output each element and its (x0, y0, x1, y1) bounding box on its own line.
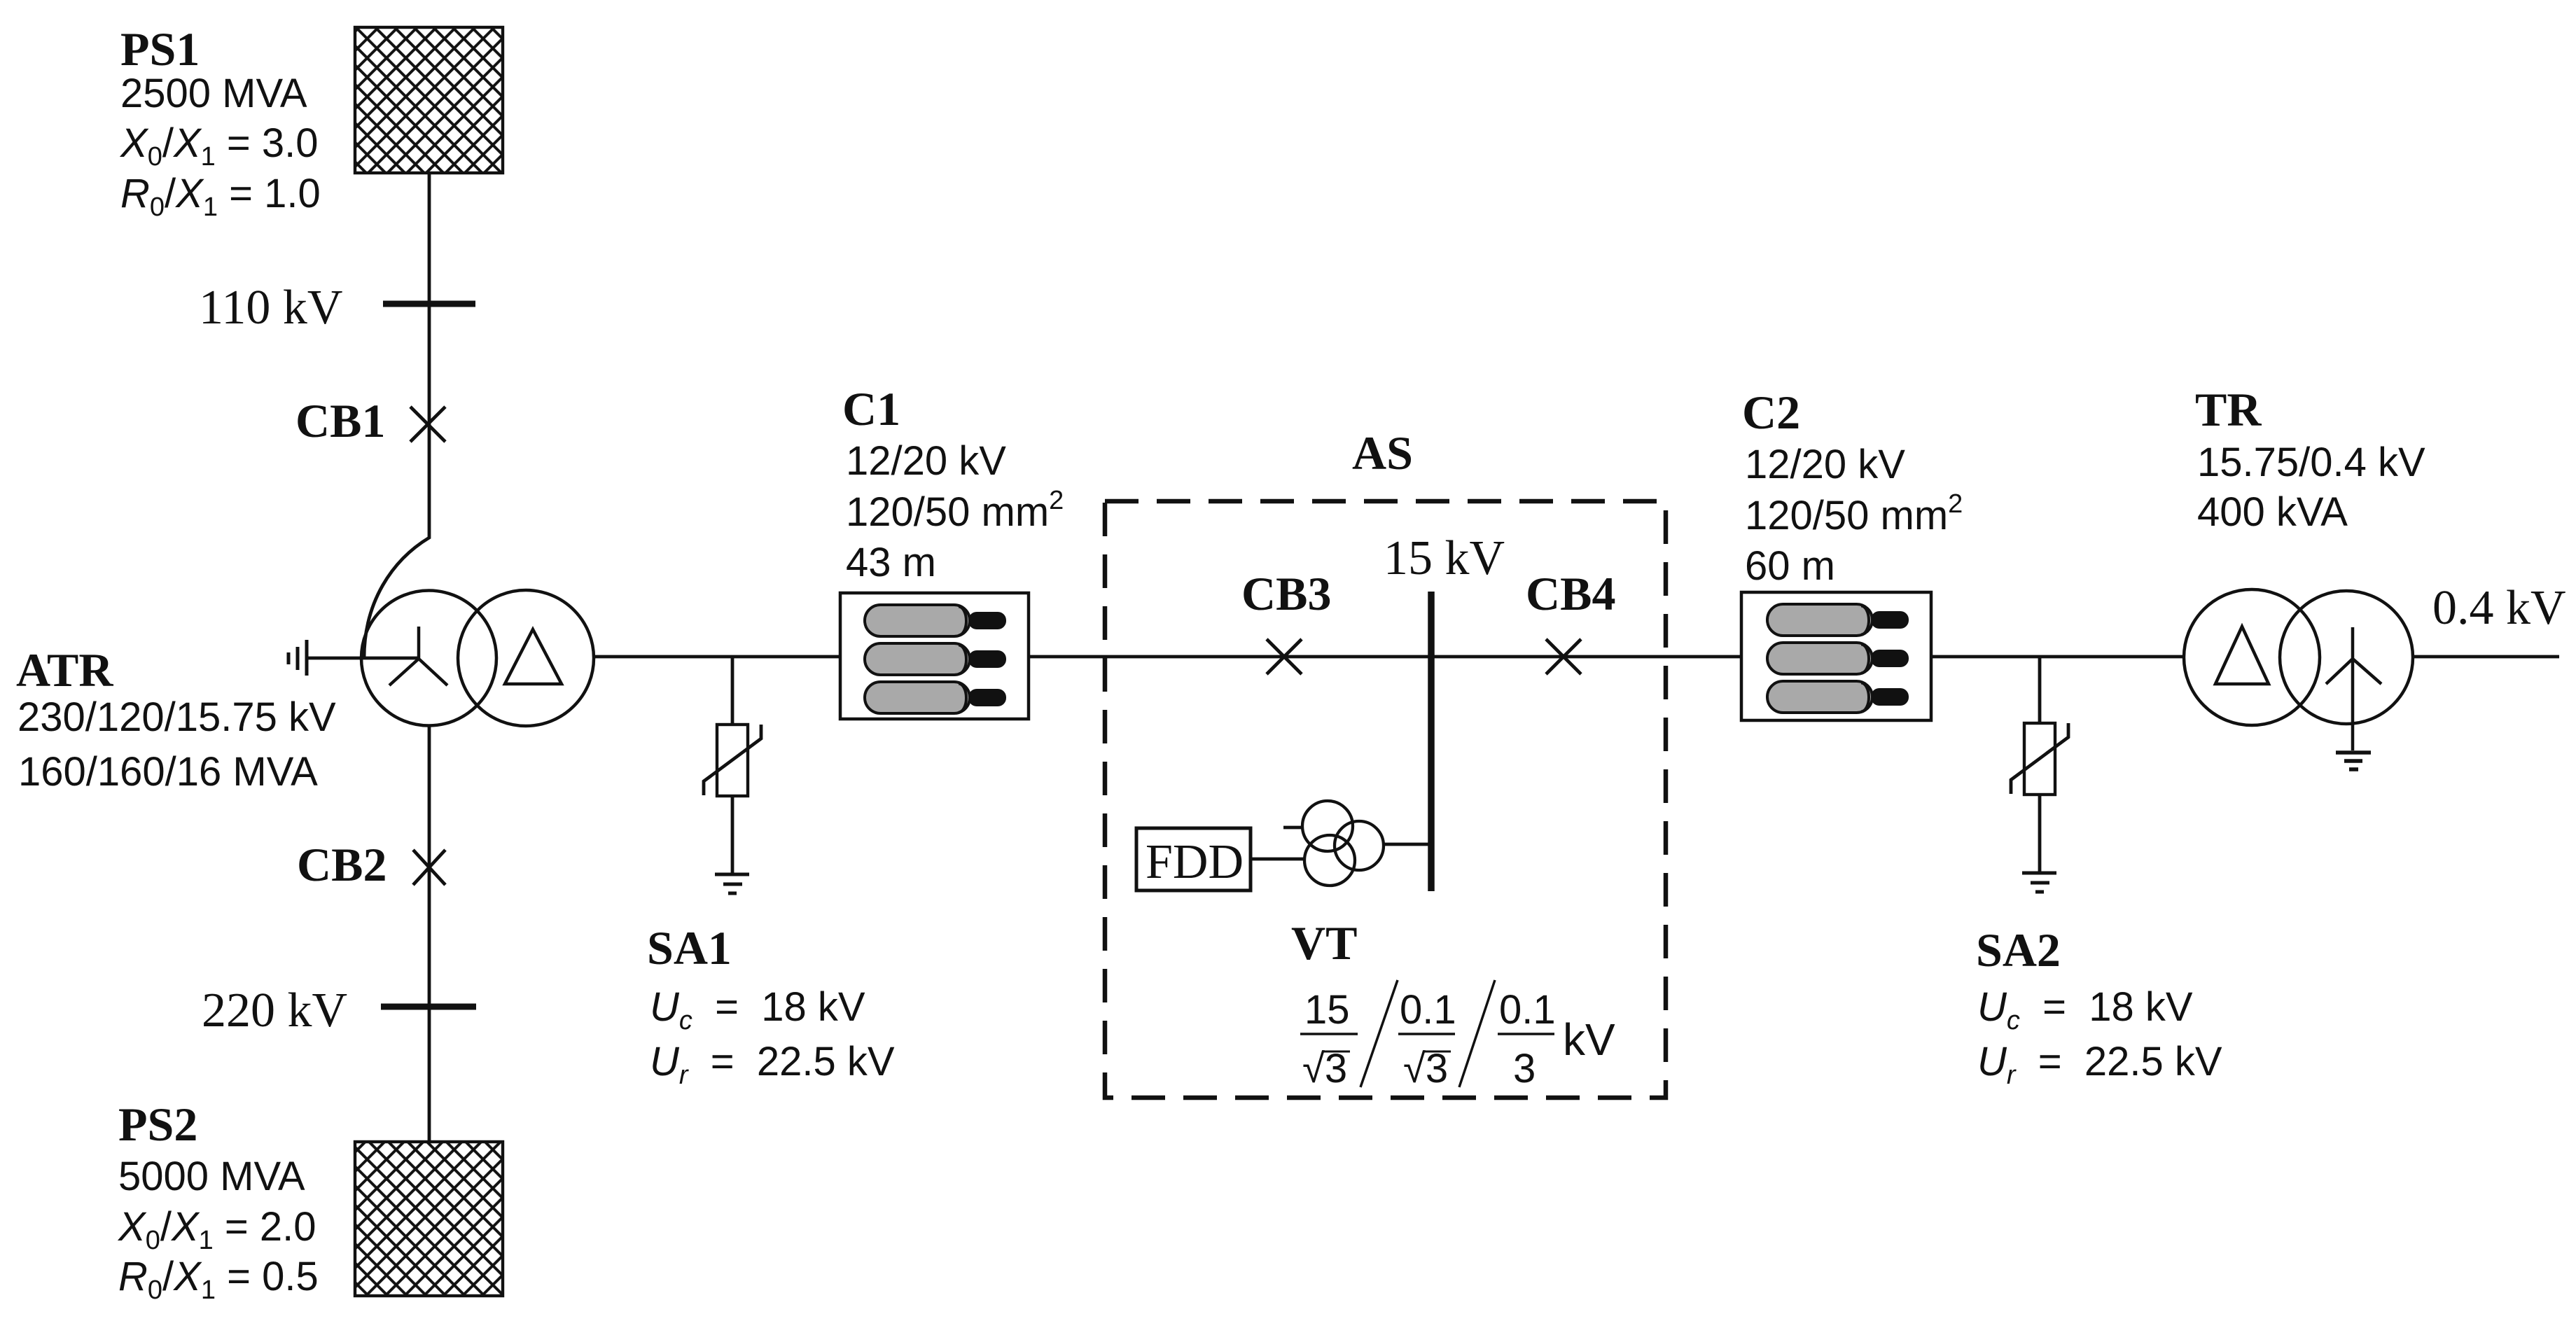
circuit breaker CB3 (1267, 639, 1302, 674)
svg-text:12/20 kV: 12/20 kV (846, 438, 1006, 484)
svg-text:3: 3 (1513, 1046, 1536, 1091)
svg-text:√3: √3 (1403, 1046, 1448, 1091)
FDD wire (1251, 858, 1304, 861)
svg-text:0.4 kV: 0.4 kV (2432, 581, 2566, 635)
C2 cable core 2 (1767, 643, 1909, 674)
busbar 220 kV (381, 1004, 476, 1010)
svg-text:SA2: SA2 (1976, 923, 2061, 977)
svg-text:12/20 kV: 12/20 kV (1745, 442, 1905, 487)
wire ATR to PS2 (428, 726, 431, 1142)
svg-text:0.1: 0.1 (1499, 987, 1556, 1033)
C1 cable core 1 (865, 605, 1006, 636)
svg-text:15: 15 (1304, 987, 1350, 1033)
svg-text:400 kVA: 400 kVA (2197, 489, 2348, 535)
C2 cable core 3 (1767, 681, 1909, 713)
svg-text:PS1: PS1 (120, 22, 200, 76)
FDD box (1136, 828, 1251, 890)
VT wire to busbar (1384, 843, 1431, 846)
svg-text:15 kV: 15 kV (1384, 531, 1505, 585)
surge arrester SA2 body (2024, 723, 2055, 795)
svg-text:43 m: 43 m (846, 540, 936, 585)
cable C2 box (1741, 592, 1931, 720)
main feeder wire C1 to C2 (1029, 655, 1741, 659)
VT ratio slash 1 (1360, 980, 1398, 1087)
C1 cable core 3 (865, 682, 1006, 713)
ATR delta winding symbol (505, 629, 562, 684)
circuit breaker CB2 (413, 850, 445, 885)
transformer TR primary circle (2184, 589, 2320, 725)
svg-text:60 m: 60 m (1745, 543, 1835, 589)
svg-text:2500 MVA: 2500 MVA (120, 71, 307, 116)
svg-text:CB1: CB1 (295, 394, 385, 447)
C2 cable core 1 (1767, 604, 1909, 636)
VT ratio bar 1 (1300, 1033, 1358, 1035)
busbar 110 kV (383, 301, 475, 307)
svg-text:220 kV: 220 kV (202, 984, 347, 1037)
svg-text:C1: C1 (842, 382, 900, 435)
SA2 varistor diagonal (2011, 723, 2068, 794)
surge arrester SA2 stub wire (2038, 657, 2042, 723)
svg-text:CB3: CB3 (1241, 567, 1331, 620)
ATR wye winding symbol (389, 627, 447, 685)
cable C1 box (840, 593, 1029, 719)
circuit breaker CB1 (410, 407, 445, 442)
artificial network AS dashed box (1105, 501, 1666, 1098)
voltage transformer VT circle right (1335, 821, 1384, 870)
svg-text:C2: C2 (1742, 386, 1800, 439)
svg-text:120/50 mm2: 120/50 mm2 (1745, 489, 1963, 538)
autotransformer ATR primary circle (361, 591, 496, 726)
power source PS2 (355, 1142, 503, 1296)
main feeder wire C2 to TR (1931, 655, 2184, 659)
VT sqrt overline 2 (1424, 1051, 1451, 1053)
surge arrester SA1 body (717, 725, 748, 796)
C1 cable core 2 (865, 643, 1006, 675)
VT ratio bar 2 (1398, 1033, 1455, 1035)
svg-text:PS2: PS2 (118, 1098, 197, 1151)
SA1 down wire (731, 796, 734, 874)
ATR neutral ground (288, 640, 307, 676)
svg-text:160/160/16 MVA: 160/160/16 MVA (18, 749, 318, 795)
voltage transformer VT circle top (1302, 801, 1353, 851)
main feeder wire ATR to C1 (594, 655, 840, 659)
SA1 varistor diagonal (704, 725, 761, 795)
svg-text:VT: VT (1291, 916, 1357, 970)
svg-text:SA1: SA1 (647, 921, 732, 974)
svg-text:CB4: CB4 (1526, 567, 1615, 620)
svg-text:√3: √3 (1302, 1046, 1347, 1091)
TR wye winding symbol (2326, 627, 2381, 750)
autotransformer ATR secondary circle (458, 590, 594, 726)
ATR neutral wire (307, 657, 419, 660)
SA1 ground (715, 874, 749, 893)
svg-text:15.75/0.4 kV: 15.75/0.4 kV (2197, 440, 2425, 485)
svg-text:CB2: CB2 (297, 838, 387, 891)
circuit breaker CB4 (1546, 639, 1581, 674)
power source PS1 (355, 27, 503, 173)
surge arrester SA1 stub wire (731, 657, 734, 725)
transformer TR secondary circle (2280, 591, 2413, 724)
busbar 15 kV (1428, 592, 1435, 891)
wire PS1 to ATR (364, 173, 429, 658)
SA2 down wire (2038, 795, 2042, 873)
svg-text:ATR: ATR (16, 643, 113, 697)
svg-text:120/50 mm2: 120/50 mm2 (846, 486, 1064, 535)
TR ground (2336, 753, 2371, 769)
svg-text:kV: kV (1563, 1014, 1615, 1065)
svg-text:TR: TR (2195, 383, 2262, 436)
svg-text:FDD: FDD (1146, 835, 1244, 889)
svg-text:110 kV: 110 kV (199, 281, 342, 335)
SA2 ground (2022, 873, 2056, 892)
VT ratio bar 3 (1498, 1033, 1554, 1035)
VT ratio slash 2 (1459, 980, 1495, 1087)
wire TR to 0.4 kV (2413, 655, 2559, 659)
VT stub line (1283, 826, 1302, 830)
svg-text:AS: AS (1352, 426, 1413, 480)
svg-text:5000 MVA: 5000 MVA (118, 1154, 305, 1199)
TR delta winding symbol (2215, 627, 2269, 684)
voltage transformer VT circle bottom (1304, 835, 1355, 886)
svg-text:230/120/15.75 kV: 230/120/15.75 kV (18, 694, 336, 740)
svg-text:0.1: 0.1 (1400, 987, 1456, 1033)
VT sqrt overline 1 (1323, 1051, 1350, 1053)
